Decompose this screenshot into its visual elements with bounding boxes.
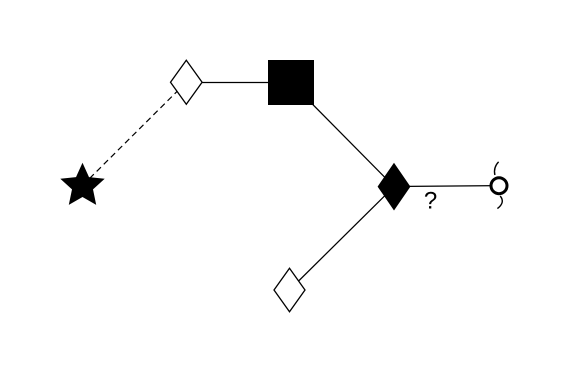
wire filled square to filled diamond — [291, 83, 394, 187]
wire filled diamond to reducing-end circle — [394, 185, 499, 188]
wire filled diamond to bottom open diamond — [290, 187, 395, 290]
svg-text:?: ? — [424, 188, 437, 215]
filled star node — [60, 163, 104, 205]
reducing-end lower arc — [497, 196, 502, 209]
reducing-end upper arc — [494, 162, 498, 175]
open diamond node (top) — [171, 60, 203, 104]
filled square node — [268, 60, 314, 105]
filled diamond node — [378, 164, 410, 210]
reducing-end circle — [491, 178, 507, 194]
wire dashed star to open diamond — [83, 82, 187, 185]
wire open diamond to filled square — [186, 82, 291, 84]
open diamond node (bottom) — [274, 268, 305, 312]
